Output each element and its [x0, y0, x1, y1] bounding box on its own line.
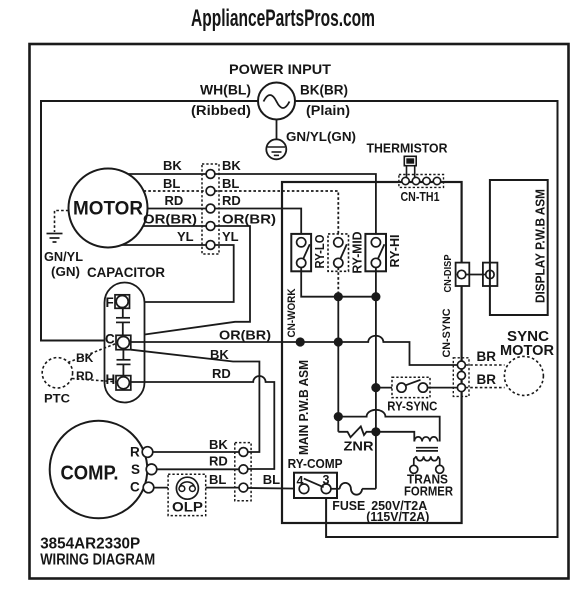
svg-text:RY-SYNC: RY-SYNC — [387, 400, 437, 414]
wire BL to RY-COMP — [248, 487, 299, 490]
label GN/YL(GN) — [286, 129, 356, 144]
thermistor TH1 — [404, 156, 418, 178]
wire vertical net RY-MID down — [337, 297, 339, 432]
transformer — [410, 437, 444, 473]
wire OR(BR) from C to CN-SYNC with hop — [131, 336, 458, 365]
varistor ZNR — [338, 426, 376, 453]
node CN-WORK junction — [296, 337, 305, 346]
labels motor wire colors right — [222, 158, 276, 244]
svg-text:RD: RD — [222, 193, 241, 208]
wire motor OR(BR) — [143, 225, 206, 227]
svg-text:FORMER: FORMER — [404, 484, 454, 499]
compressor terminal S — [131, 462, 157, 477]
svg-text:OR(BR): OR(BR) — [219, 328, 271, 343]
svg-text:3: 3 — [323, 473, 330, 487]
wire PTC BK dashed to C — [68, 344, 116, 363]
label CN-WORK — [286, 288, 298, 337]
svg-text:WIRING DIAGRAM: WIRING DIAGRAM — [40, 552, 155, 569]
svg-text:BL: BL — [222, 176, 239, 191]
svg-text:BK(BR): BK(BR) — [300, 83, 348, 98]
wire motor BK — [128, 173, 206, 175]
label SYNC MOTOR — [500, 329, 555, 359]
label RY-COMP — [288, 457, 343, 471]
wire BL row to RY-MID dashed — [215, 191, 338, 238]
svg-text:(Plain): (Plain) — [306, 103, 350, 118]
svg-text:RD: RD — [209, 454, 228, 469]
capacitor plates C-H — [117, 350, 131, 376]
wire RD from H to compressor connector with hop — [131, 376, 274, 469]
connector CN-DISP — [442, 255, 497, 293]
svg-text:(115V/T2A): (115V/T2A) — [366, 510, 429, 524]
capacitor terminal H — [106, 372, 131, 390]
AC power source — [258, 83, 295, 120]
svg-text:3854AR2330P: 3854AR2330P — [40, 536, 140, 553]
wire transformer feed with hop — [338, 410, 439, 442]
svg-text:CN-TH1: CN-TH1 — [401, 190, 440, 204]
wire vertical net RY-HI down to fuse — [375, 297, 377, 489]
relay RY-LO — [291, 234, 327, 271]
main PWB box — [282, 182, 462, 523]
node junction ZNR right — [371, 427, 380, 436]
wire OR(BR) row to capacitor C — [131, 226, 251, 337]
connector compressor 3-pin — [235, 443, 251, 501]
wire RD row to RY-LO — [215, 209, 301, 238]
wire main loop top left WH(BL) — [41, 101, 258, 341]
wire ZNR row to transformer primary — [376, 432, 414, 442]
svg-text:MAIN P.W.B ASM: MAIN P.W.B ASM — [297, 360, 311, 455]
svg-text:GN/YL: GN/YL — [44, 249, 83, 264]
svg-text:BL: BL — [209, 472, 226, 487]
svg-text:PTC: PTC — [44, 392, 70, 406]
PTC — [42, 358, 72, 406]
label CN-SYNC — [441, 308, 453, 357]
svg-text:(Ribbed): (Ribbed) — [191, 103, 251, 118]
watermark AppliancePartsPros.com — [191, 5, 375, 32]
svg-text:POWER INPUT: POWER INPUT — [229, 61, 331, 77]
wire BK from C to compressor connector — [131, 350, 259, 452]
svg-text:OR(BR): OR(BR) — [222, 212, 276, 227]
svg-text:F: F — [106, 295, 114, 310]
svg-text:BL: BL — [163, 176, 180, 191]
svg-text:OR(BR): OR(BR) — [143, 212, 197, 227]
svg-text:BK: BK — [209, 437, 228, 452]
capacitor terminal F — [106, 295, 130, 310]
svg-text:WH(BL): WH(BL) — [200, 83, 251, 98]
node junction RY-SYNC branch — [371, 383, 380, 392]
connector CN-SYNC — [453, 358, 469, 397]
svg-text:CAPACITOR: CAPACITOR — [87, 265, 165, 280]
labels motor wire colors left — [143, 158, 197, 244]
svg-text:C: C — [130, 480, 140, 495]
svg-text:AppliancePartsPros.com: AppliancePartsPros.com — [191, 5, 375, 32]
svg-text:RY-MID: RY-MID — [351, 232, 365, 274]
wire to RY-SYNC — [376, 387, 397, 389]
labels comp wires — [209, 437, 280, 487]
label CAPACITOR — [87, 265, 165, 280]
svg-text:BR: BR — [477, 372, 497, 387]
svg-text:MOTOR: MOTOR — [500, 343, 555, 359]
node junction transformer branch — [334, 412, 343, 421]
ground motor chassis — [47, 211, 69, 243]
label part number — [40, 536, 140, 553]
svg-text:OLP: OLP — [172, 500, 203, 515]
svg-text:CN-SYNC: CN-SYNC — [441, 308, 453, 357]
label WH(BL) (Ribbed) — [191, 83, 251, 119]
capacitor terminal C — [105, 332, 131, 350]
OLP overload protector — [168, 474, 206, 515]
svg-text:COMP.: COMP. — [61, 463, 119, 485]
svg-text:4: 4 — [297, 474, 304, 488]
svg-text:YL: YL — [222, 229, 239, 244]
label BR lower — [477, 372, 497, 387]
svg-text:BK: BK — [163, 158, 182, 173]
fuse — [331, 483, 376, 513]
wire RY-SYNC to CN-SYNC — [428, 387, 458, 389]
label fuse rating — [366, 499, 429, 524]
compressor terminal C — [130, 480, 154, 495]
relay RY-HI — [365, 234, 402, 271]
svg-text:BL: BL — [263, 472, 280, 487]
svg-text:R: R — [130, 445, 140, 460]
label GN/YL (GN) — [44, 249, 83, 279]
display PWB box — [490, 180, 548, 315]
label OR(BR) center — [219, 328, 271, 343]
svg-text:RD: RD — [165, 193, 184, 208]
relay RY-SYNC — [387, 377, 437, 413]
label BK center — [210, 347, 229, 362]
label TRANS FORMER — [404, 472, 454, 499]
label POWER INPUT — [229, 61, 331, 77]
node junction OR(BR)-RYMID net — [334, 337, 343, 346]
ground earth symbol below power input — [266, 120, 286, 160]
svg-text:RY-COMP: RY-COMP — [288, 457, 343, 471]
svg-text:ZNR: ZNR — [344, 439, 375, 454]
svg-text:RY-HI: RY-HI — [388, 235, 402, 268]
svg-text:CN-DISP: CN-DISP — [442, 255, 454, 293]
compressor terminal R — [130, 445, 153, 460]
relay RY-MID — [328, 232, 365, 274]
label MAIN P.W.B ASM — [297, 360, 311, 455]
svg-text:BK: BK — [76, 351, 94, 365]
svg-text:CN-WORK: CN-WORK — [286, 288, 298, 337]
relay RY-COMP — [294, 473, 337, 498]
label BK near PTC — [76, 351, 94, 365]
wire comp R BK — [153, 451, 239, 453]
wire YL row to capacitor F — [130, 245, 234, 302]
svg-text:GN/YL(GN): GN/YL(GN) — [286, 129, 356, 144]
wire comp S RD — [157, 468, 239, 470]
compressor — [50, 421, 148, 519]
svg-text:H: H — [106, 372, 116, 387]
wire motor BL dashed — [144, 190, 207, 192]
motor — [69, 169, 148, 248]
capacitor plates F-C — [116, 308, 130, 335]
capacitor body — [105, 283, 145, 403]
label RD near PTC — [76, 369, 94, 383]
wire PTC RD dashed to H — [72, 379, 116, 382]
wire BR lower dashed — [465, 387, 504, 389]
wire motor RD — [148, 208, 207, 210]
connector CN-TH1 — [399, 175, 444, 204]
label RD center — [212, 366, 231, 381]
wire BK row to RY-HI — [215, 174, 376, 238]
svg-text:FUSE: FUSE — [332, 498, 365, 513]
svg-text:BR: BR — [477, 349, 497, 364]
connector motor 5-pin — [202, 164, 219, 254]
label BK(BR) (Plain) — [300, 83, 350, 119]
svg-text:THERMISTOR: THERMISTOR — [367, 140, 449, 155]
wire comp C BL through OLP — [154, 487, 239, 489]
svg-text:RD: RD — [76, 369, 94, 383]
svg-text:YL: YL — [177, 229, 194, 244]
wire main loop right BK(BR) — [295, 101, 558, 537]
label BR upper — [477, 349, 497, 364]
svg-text:BK: BK — [222, 158, 241, 173]
wire relay commons — [301, 268, 376, 297]
sync motor — [504, 356, 543, 395]
wire BR upper dashed — [465, 364, 504, 366]
svg-text:RY-LO: RY-LO — [313, 234, 327, 268]
svg-text:RD: RD — [212, 366, 231, 381]
svg-text:MOTOR: MOTOR — [73, 199, 143, 220]
wire motor YL — [122, 244, 206, 246]
label WIRING DIAGRAM — [40, 552, 155, 569]
node junction RY-HI common — [371, 292, 380, 301]
svg-text:DISPLAY P.W.B ASM: DISPLAY P.W.B ASM — [534, 189, 548, 303]
node junction RY-MID common — [334, 292, 343, 301]
svg-text:S: S — [131, 462, 140, 477]
label THERMISTOR — [367, 140, 449, 155]
svg-text:(GN): (GN) — [51, 264, 80, 279]
